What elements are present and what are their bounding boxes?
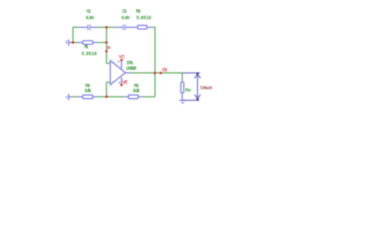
svg-text:Rн: Rн <box>185 87 191 92</box>
svg-text:DA1: DA1 <box>127 60 134 65</box>
svg-text:8.2k: 8.2k <box>133 88 140 93</box>
svg-text:R1: R1 <box>85 44 89 49</box>
svg-text:In: In <box>107 45 111 50</box>
svg-text:Uвых: Uвых <box>200 85 213 90</box>
svg-text:C1: C1 <box>86 8 91 13</box>
svg-text:C2: C2 <box>122 8 127 13</box>
svg-text:Out: Out <box>162 67 168 72</box>
svg-text:3.3k: 3.3k <box>85 88 92 93</box>
svg-text:VE: VE <box>122 80 127 85</box>
svg-text:6.8n: 6.8n <box>122 15 131 20</box>
svg-text:VC: VC <box>119 54 125 59</box>
svg-text:LM118: LM118 <box>126 66 137 71</box>
svg-text:5.851k: 5.851k <box>137 15 152 20</box>
svg-text:R2: R2 <box>136 8 141 13</box>
svg-text:6.8n: 6.8n <box>86 15 95 20</box>
svg-text:5.851k: 5.851k <box>82 51 98 56</box>
